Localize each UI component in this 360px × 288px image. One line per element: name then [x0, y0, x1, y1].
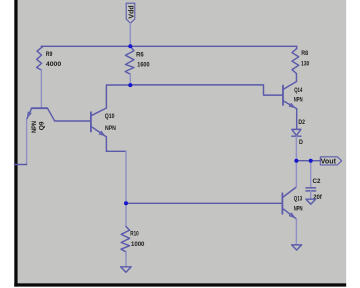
- resistor R6: [125, 46, 150, 85]
- wire top bus: [41, 45, 296, 47]
- wire node to Q10 collector: [106, 85, 130, 108]
- output flag Vout: [320, 157, 341, 166]
- ground below R10: [121, 267, 132, 273]
- svg-text:D2: D2: [298, 119, 305, 126]
- svg-text:C2: C2: [313, 178, 321, 185]
- transistor Q9: [27, 108, 55, 164]
- svg-text:R8: R8: [301, 50, 308, 57]
- wire Vout node to flag: [296, 160, 320, 162]
- transistor Q13: [282, 187, 302, 245]
- ground below Q13: [292, 245, 302, 250]
- svg-text:4000: 4000: [46, 61, 62, 68]
- transistor Q10: [91, 108, 116, 137]
- svg-text:NPN: NPN: [294, 97, 303, 104]
- wire D2 to Vout node: [295, 136, 297, 161]
- svg-text:1600: 1600: [137, 61, 150, 68]
- wire Vdd to bus: [129, 23, 131, 46]
- svg-text:130: 130: [301, 60, 310, 67]
- svg-text:R10: R10: [130, 231, 139, 238]
- svg-text:R6: R6: [136, 51, 144, 58]
- svg-text:NPN: NPN: [105, 125, 116, 132]
- svg-text:D: D: [299, 139, 303, 146]
- wire down to node: [125, 151, 127, 203]
- wire Q10 emitter down: [105, 137, 107, 151]
- svg-text:R9: R9: [46, 51, 53, 58]
- capacitor C2: [306, 178, 323, 201]
- svg-text:Vout: Vout: [321, 159, 337, 166]
- node below R6: [128, 83, 132, 87]
- node Vout left: [294, 159, 298, 163]
- transistor Q14: [283, 82, 303, 130]
- svg-text:Q14: Q14: [294, 87, 302, 94]
- svg-text:NPN: NPN: [31, 121, 38, 133]
- resistor R8: [292, 46, 310, 81]
- wire node to Q13 base: [126, 202, 282, 204]
- diode D2: [292, 119, 305, 146]
- wire Q9 emitter to left edge: [15, 164, 27, 166]
- wire step to R10 column: [106, 150, 126, 152]
- wire Q13 collector to Vout node: [295, 161, 297, 187]
- power flag Vdd: [126, 3, 135, 23]
- node above C2: [309, 159, 313, 163]
- node above R10: [124, 201, 128, 205]
- svg-text:Q13: Q13: [294, 196, 303, 203]
- resistor R10: [121, 203, 145, 266]
- svg-text:Q9: Q9: [38, 121, 45, 130]
- svg-text:NPN: NPN: [294, 205, 303, 212]
- svg-text:Vdd: Vdd: [128, 5, 135, 18]
- node at Vdd bus: [128, 44, 132, 48]
- wire R9 to Q9 base: [40, 70, 42, 108]
- resistor R9: [37, 46, 62, 70]
- ground below C2: [306, 199, 316, 204]
- svg-text:Q10: Q10: [105, 113, 115, 120]
- wire Q9 collector to Q10 base: [55, 120, 91, 122]
- wire node to Q14 base: [130, 85, 283, 95]
- svg-text:1000: 1000: [131, 241, 145, 248]
- wire node to C2: [310, 161, 312, 188]
